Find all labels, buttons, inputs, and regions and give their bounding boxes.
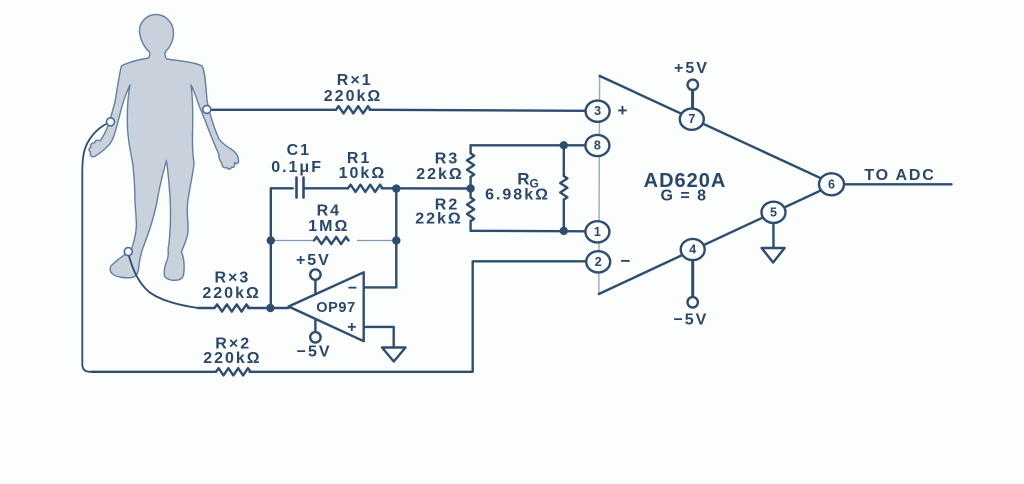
node: R3/R2 midpoint [466, 184, 474, 192]
svg-text:1MΩ: 1MΩ [308, 218, 349, 235]
human body silhouette [89, 15, 238, 281]
wire: top rail to pin 8 [471, 144, 585, 146]
wire: RG vertical [563, 145, 565, 231]
svg-text:22kΩ: 22kΩ [416, 166, 464, 183]
svg-text:10kΩ: 10kΩ [339, 165, 387, 182]
wire: bottom wire to riser [250, 261, 586, 372]
wire: bottom rail to pin 1 [471, 230, 585, 233]
pin 8 [585, 135, 609, 156]
svg-text:6: 6 [828, 177, 835, 191]
electrode: right leg (RL) [124, 248, 132, 256]
pin 6 [819, 173, 844, 195]
svg-text:220kΩ: 220kΩ [324, 88, 382, 105]
svg-text:OP97: OP97 [316, 300, 355, 316]
wire: R4 horizontal thin [271, 240, 397, 242]
wire: R1 to R3/R2 midpoint [382, 187, 471, 190]
svg-text:6.98kΩ: 6.98kΩ [485, 187, 550, 204]
svg-text:3: 3 [594, 104, 601, 118]
wire: ankle electrode curve to RL drive wire [129, 256, 198, 308]
svg-text:220kΩ: 220kΩ [203, 350, 261, 367]
resistor R1 [348, 185, 383, 192]
wire: R×1 to pin 3 [370, 110, 586, 111]
terminal: OP97 -5V [310, 332, 320, 342]
svg-text:−: − [621, 252, 631, 271]
pin 1 [585, 221, 609, 242]
wire: R3/R2 ladder vertical top [469, 145, 471, 153]
svg-text:22kΩ: 22kΩ [415, 211, 463, 228]
svg-text:TO ADC: TO ADC [864, 167, 935, 184]
op-amp U2 OP97 triangle [289, 272, 364, 341]
svg-text:C1: C1 [287, 142, 311, 159]
svg-text:R3: R3 [435, 151, 459, 168]
wire: OP97 + input to ground [364, 327, 394, 348]
pin 5 [762, 202, 786, 223]
wire: pin 4 supply [691, 260, 694, 297]
resistor R3 [467, 153, 474, 177]
svg-text:2: 2 [595, 255, 602, 269]
resistor R×3 [215, 304, 250, 311]
resistor R2 [467, 198, 474, 222]
svg-text:−5V: −5V [297, 344, 332, 361]
wire: OP97 -5V supply [314, 319, 316, 332]
svg-text:+: + [347, 319, 356, 336]
wire: top electrode to R×1 [208, 109, 336, 111]
ground: AD620A reference pin 5 [762, 248, 785, 263]
svg-text:−5V: −5V [673, 312, 708, 329]
electrode: right arm (LA) [203, 105, 211, 113]
svg-text:220kΩ: 220kΩ [202, 285, 260, 302]
wire: node vertical up to C1 branch [271, 188, 293, 308]
svg-text:R×1: R×1 [337, 72, 373, 89]
svg-text:8: 8 [594, 139, 601, 153]
terminal: -5V AD620A [688, 297, 698, 307]
node: RG top [560, 141, 568, 149]
svg-text:5: 5 [770, 205, 777, 219]
terminal: +5V AD620A [688, 80, 698, 90]
wire: R3 to midpoint to R2 [469, 177, 471, 198]
pin 3 [586, 101, 610, 122]
svg-text:4: 4 [689, 243, 696, 257]
node: OP97 output junction [266, 304, 274, 312]
svg-text:7: 7 [688, 112, 695, 126]
wire: R2 bottom [469, 221, 471, 231]
node: R4 left junction [267, 236, 275, 244]
wire: RL drive to node [198, 307, 215, 309]
wire: C1 to R1 [305, 187, 348, 189]
svg-text:1: 1 [594, 225, 601, 239]
wire: bottom R×2 wire from curve to pin-2 riser [92, 371, 216, 373]
wire: R×3 to node and OP97 apex [248, 307, 289, 309]
wire: OP97 +5V supply [314, 280, 316, 294]
pin 4 [681, 239, 705, 260]
resistor R4 [314, 237, 349, 244]
op-amp U1 AD620A triangle [599, 76, 834, 294]
node: RG bottom [560, 227, 568, 235]
resistor R×2 [216, 368, 251, 375]
svg-text:+5V: +5V [296, 252, 331, 269]
svg-text:R4: R4 [317, 203, 341, 220]
wire: pin 5 to ground [772, 223, 774, 248]
svg-text:−: − [348, 280, 357, 297]
resistor RG [560, 176, 567, 200]
svg-text:G = 8: G = 8 [660, 188, 707, 205]
wire: left-arm electrode curve down left side to bottom wire [82, 124, 107, 372]
svg-text:+: + [618, 101, 628, 120]
wire: output pin 6 to ADC [845, 183, 952, 185]
terminal: OP97 +5V [310, 269, 320, 279]
node: R4 right junction [392, 236, 400, 244]
svg-text:+5V: +5V [674, 60, 709, 77]
node: R1 / R4 / OP97 inverting junction [392, 184, 400, 192]
svg-text:0.1μF: 0.1μF [271, 159, 323, 176]
pin 7 [680, 109, 704, 130]
resistor R×1 [336, 106, 371, 113]
capacitor C1 [297, 178, 304, 198]
op-amp U1 dark edges [599, 76, 834, 294]
pin 2 [586, 251, 610, 272]
wire: pin 7 supply [691, 90, 694, 109]
electrode: left arm (RA) [107, 118, 115, 126]
ground: OP97 non-inverting input [382, 348, 406, 362]
wire: inverting input branch down to OP97 [364, 189, 397, 288]
